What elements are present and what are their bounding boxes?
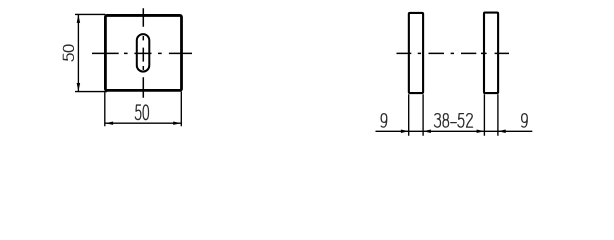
front view: vertical centerline: [142, 8, 144, 97]
dim 50 bottom: extension lines: [105, 92, 182, 127]
dim 50 left: extension lines: [75, 14, 107, 91]
dim 9 right: label 9: [522, 114, 528, 128]
side dims: extension lines: [409, 94, 498, 136]
dim 9 left: label 9: [381, 114, 387, 128]
dim 50 bottom: label 50: [135, 105, 148, 119]
side view: right plate outline: [484, 13, 498, 94]
side dims: dimension line: [376, 130, 533, 132]
side view: left plate outline: [409, 13, 423, 93]
dim 38-52: label: [435, 114, 473, 128]
dim 38-52: arrowheads: [423, 130, 484, 134]
front view: slot (obround hole): [137, 34, 150, 72]
dim 9 left: arrowhead: [401, 130, 409, 134]
dim 50 left: arrowheads: [77, 15, 81, 92]
side view: horizontal centerline: [397, 52, 510, 54]
dim 50 left: label 50 (rotated): [63, 45, 73, 61]
dim 9 right: arrowhead: [498, 130, 506, 134]
dim 50 bottom: dimension line: [105, 122, 181, 124]
front view: square plate outline: [105, 15, 181, 90]
dim 50 left: dimension line: [77, 15, 79, 92]
front view: horizontal centerline: [92, 52, 192, 54]
dim 50 bottom: arrowheads: [105, 122, 181, 125]
